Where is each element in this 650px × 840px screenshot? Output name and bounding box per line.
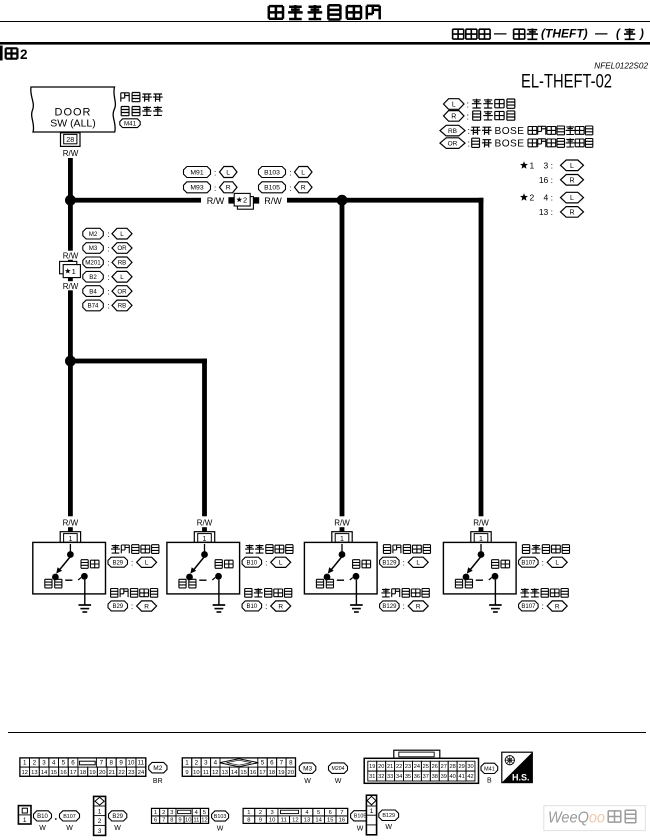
svg-text:26: 26 bbox=[432, 764, 438, 770]
connector ref B4:OR bbox=[83, 286, 132, 297]
svg-text:36: 36 bbox=[414, 774, 420, 780]
connector ref B107:R bbox=[519, 601, 568, 611]
left edge mark bbox=[0, 46, 3, 61]
svg-text:RB: RB bbox=[118, 260, 127, 267]
svg-text::: : bbox=[131, 558, 133, 567]
svg-text:13: 13 bbox=[31, 770, 37, 776]
door switch 3 box bbox=[304, 542, 377, 594]
svg-text:M2: M2 bbox=[153, 765, 162, 772]
wire label R/W (switch 2) bbox=[197, 519, 213, 528]
svg-text:20: 20 bbox=[378, 764, 384, 770]
svg-text:R/W: R/W bbox=[264, 196, 282, 206]
wire label R/W (switch 3) bbox=[334, 519, 350, 528]
svg-text:14: 14 bbox=[315, 818, 322, 824]
svg-text:13: 13 bbox=[304, 818, 310, 824]
inline connector *1 bbox=[60, 261, 81, 277]
svg-text:EL-THEFT-02: EL-THEFT-02 bbox=[521, 72, 612, 93]
svg-text:W: W bbox=[114, 825, 121, 832]
svg-text::: : bbox=[108, 302, 110, 311]
svg-text:B105: B105 bbox=[264, 185, 280, 192]
svg-text:5: 5 bbox=[261, 760, 265, 767]
ground (switch 3) bbox=[350, 580, 363, 612]
footnote *1 pin16 R bbox=[539, 175, 584, 186]
switch 4 closed contact 关闭 bbox=[455, 574, 472, 588]
connector ref B107:L bbox=[519, 557, 568, 567]
pin 1 (switch 4) bbox=[471, 532, 491, 544]
switch 1 closed contact 关闭 bbox=[45, 574, 62, 588]
svg-text:R/W: R/W bbox=[207, 196, 225, 206]
svg-text:M201: M201 bbox=[85, 260, 101, 267]
svg-text:5: 5 bbox=[317, 810, 320, 816]
svg-text:R: R bbox=[144, 603, 149, 610]
connector ref M3:OR bbox=[83, 243, 132, 254]
svg-text:2: 2 bbox=[98, 818, 102, 825]
switch 3 blade w/ arrow bbox=[328, 557, 342, 574]
pin 1 (switch 3) bbox=[332, 532, 352, 544]
connector refs M91:L B103:L bbox=[184, 167, 313, 178]
svg-text::: : bbox=[290, 169, 292, 178]
connector ref B103 W bbox=[212, 811, 229, 833]
svg-text:31: 31 bbox=[369, 774, 375, 780]
svg-text:19: 19 bbox=[89, 770, 95, 776]
svg-text:B74: B74 bbox=[87, 303, 99, 310]
svg-text:R/W: R/W bbox=[63, 519, 79, 528]
switch 2 blade w/ arrow bbox=[190, 557, 204, 574]
svg-text::: : bbox=[467, 100, 470, 110]
doc number NFEL0122S02 bbox=[594, 62, 648, 71]
connector refs M3 W / M204 W bbox=[299, 763, 347, 785]
svg-text:9: 9 bbox=[259, 818, 262, 824]
svg-text:10: 10 bbox=[185, 818, 191, 824]
svg-text:5: 5 bbox=[203, 810, 206, 816]
svg-text::: : bbox=[214, 184, 216, 193]
svg-text:16 :: 16 : bbox=[539, 175, 553, 185]
svg-text:7: 7 bbox=[340, 810, 343, 816]
svg-text:R: R bbox=[569, 209, 574, 216]
svg-text::: : bbox=[108, 230, 110, 239]
svg-text:4 :: 4 : bbox=[544, 193, 553, 203]
svg-text:L: L bbox=[120, 274, 124, 281]
svg-text:R: R bbox=[226, 185, 231, 192]
svg-text:21: 21 bbox=[387, 764, 393, 770]
label 左后门开关 bbox=[245, 545, 293, 554]
switch 2 closed contact 关闭 bbox=[179, 574, 196, 588]
svg-text::: : bbox=[468, 139, 471, 149]
svg-text:M41: M41 bbox=[484, 766, 495, 772]
svg-text::: : bbox=[108, 273, 110, 282]
door switch 2 box bbox=[167, 542, 240, 594]
svg-text:M41: M41 bbox=[124, 120, 137, 127]
svg-text:3: 3 bbox=[170, 810, 173, 816]
svg-text:15: 15 bbox=[327, 818, 333, 824]
connector view B29 4-pin strip bbox=[94, 796, 106, 835]
node junction at branch3 bbox=[337, 195, 348, 206]
svg-text:M93: M93 bbox=[190, 185, 203, 192]
pin 28 bbox=[61, 133, 81, 147]
svg-text:1: 1 bbox=[72, 267, 76, 276]
svg-text:34: 34 bbox=[396, 774, 402, 780]
wire label R/W (pin28) bbox=[63, 149, 79, 158]
svg-text:12: 12 bbox=[21, 770, 27, 776]
svg-text:1: 1 bbox=[23, 760, 27, 767]
svg-text:2: 2 bbox=[243, 196, 247, 205]
svg-text:W: W bbox=[66, 825, 73, 832]
svg-text:B129: B129 bbox=[382, 604, 397, 610]
svg-text:R: R bbox=[278, 603, 283, 610]
watermark WeeQoo bbox=[544, 806, 646, 831]
svg-text:B107: B107 bbox=[63, 814, 76, 820]
svg-text::: : bbox=[108, 259, 110, 268]
svg-text:L: L bbox=[555, 560, 559, 567]
svg-text:1: 1 bbox=[154, 810, 157, 816]
inline connector *2 bbox=[228, 193, 259, 209]
svg-text:W: W bbox=[357, 826, 364, 833]
connector ref M201:RB bbox=[83, 257, 132, 268]
svg-text:L: L bbox=[570, 195, 574, 202]
connector ref B105 W bbox=[351, 811, 370, 833]
svg-text:B4: B4 bbox=[89, 288, 97, 295]
svg-text:R/W: R/W bbox=[63, 251, 79, 260]
svg-text:27: 27 bbox=[441, 764, 447, 770]
svg-text:16: 16 bbox=[60, 770, 66, 776]
svg-text:W: W bbox=[385, 824, 392, 831]
node junction lower branch bbox=[65, 356, 76, 367]
svg-text:W: W bbox=[39, 825, 46, 832]
svg-text:8: 8 bbox=[170, 818, 173, 824]
svg-text::: : bbox=[265, 602, 267, 611]
ground (switch 4) bbox=[489, 580, 502, 612]
header subtitle 电路图-防盗(THEFT)-(续) bbox=[453, 27, 644, 41]
wire label R/W (switch 4) bbox=[473, 519, 489, 528]
wire vertical main from pin28 down to switch1 bbox=[68, 158, 73, 532]
label 右前门开关 bbox=[383, 545, 430, 554]
connector ref B29 W bbox=[109, 811, 127, 832]
svg-text:OR: OR bbox=[117, 245, 127, 252]
switch 1 contact from pin bbox=[67, 544, 74, 558]
svg-text:L: L bbox=[120, 231, 124, 238]
connector ref B2:L bbox=[83, 271, 132, 282]
svg-text:—: — bbox=[493, 27, 507, 41]
footnote *2 pin13 R bbox=[539, 207, 584, 218]
svg-text:L: L bbox=[145, 560, 149, 567]
svg-text:11: 11 bbox=[281, 818, 287, 824]
svg-text:6: 6 bbox=[270, 760, 274, 767]
svg-text:RB: RB bbox=[118, 303, 127, 310]
svg-text:9: 9 bbox=[185, 770, 188, 776]
svg-text:12: 12 bbox=[292, 818, 298, 824]
svg-text:L: L bbox=[279, 560, 283, 567]
H.S. logo bbox=[502, 752, 533, 782]
wire vertical branch3 bbox=[340, 200, 345, 532]
wire horizontal lower branch bbox=[68, 359, 207, 364]
svg-text:RB: RB bbox=[448, 128, 457, 135]
svg-text:B10: B10 bbox=[37, 814, 48, 820]
svg-text:(THEFT): (THEFT) bbox=[541, 27, 588, 41]
svg-text:M2: M2 bbox=[89, 231, 98, 238]
svg-text:18: 18 bbox=[80, 770, 86, 776]
svg-text:35: 35 bbox=[405, 774, 411, 780]
legend OR = 不带BOSE系统的右舵车型 bbox=[440, 138, 593, 150]
svg-text:SW (ALL): SW (ALL) bbox=[50, 118, 96, 130]
svg-text:21: 21 bbox=[109, 770, 115, 776]
svg-text:16: 16 bbox=[339, 818, 345, 824]
svg-text:17: 17 bbox=[70, 770, 76, 776]
connector ref M2:L bbox=[83, 228, 132, 239]
unit label 智能进入控制单元 bbox=[121, 93, 163, 116]
svg-text:29: 29 bbox=[458, 764, 464, 770]
svg-text:R/W: R/W bbox=[63, 149, 79, 158]
svg-text:40: 40 bbox=[449, 774, 455, 780]
connector ref M2 BR bbox=[149, 762, 167, 785]
svg-text:R/W: R/W bbox=[63, 282, 79, 291]
svg-text:41: 41 bbox=[458, 774, 464, 780]
switch 3 open contact 打开 bbox=[337, 560, 371, 581]
svg-text:11: 11 bbox=[193, 818, 199, 824]
wire label R/W (left of *2) bbox=[207, 196, 225, 206]
svg-text:B103: B103 bbox=[264, 169, 280, 176]
svg-text:BOSE: BOSE bbox=[495, 126, 525, 137]
svg-text:14: 14 bbox=[231, 770, 238, 776]
svg-text:L: L bbox=[570, 163, 574, 170]
svg-text::: : bbox=[290, 184, 292, 193]
svg-text:2: 2 bbox=[20, 47, 28, 62]
connector view M3/M204 20-pin bbox=[182, 758, 295, 776]
connector refs B10 W / B107 W bbox=[34, 811, 80, 832]
svg-text::: : bbox=[468, 126, 471, 136]
svg-text:17: 17 bbox=[259, 770, 265, 776]
svg-text:23: 23 bbox=[405, 764, 411, 770]
door switch 4 box bbox=[443, 542, 516, 594]
svg-text:2: 2 bbox=[259, 810, 262, 816]
svg-text:33: 33 bbox=[387, 774, 393, 780]
svg-text:M3: M3 bbox=[303, 766, 312, 773]
svg-text:1: 1 bbox=[370, 808, 374, 815]
svg-text:20: 20 bbox=[99, 770, 105, 776]
svg-text:R: R bbox=[301, 185, 306, 192]
svg-text:M3: M3 bbox=[89, 245, 98, 252]
svg-text:1: 1 bbox=[247, 810, 250, 816]
svg-text:9: 9 bbox=[178, 818, 181, 824]
header thick rule bbox=[0, 42, 650, 45]
svg-text:13: 13 bbox=[221, 770, 227, 776]
svg-text:B129: B129 bbox=[382, 560, 397, 566]
connector view B10/B107 1-pin bbox=[18, 806, 31, 824]
svg-text:7: 7 bbox=[162, 818, 165, 824]
svg-text:7: 7 bbox=[100, 760, 104, 767]
svg-text:5: 5 bbox=[62, 760, 66, 767]
svg-text:—: — bbox=[594, 27, 608, 41]
svg-text:B129: B129 bbox=[382, 813, 395, 819]
footnote *1 pin3 L bbox=[520, 160, 584, 171]
svg-text:3: 3 bbox=[42, 760, 46, 767]
svg-text:L: L bbox=[452, 102, 456, 109]
connector view B105 16-pin bbox=[243, 808, 348, 823]
svg-text:7: 7 bbox=[280, 760, 284, 767]
svg-text::: : bbox=[467, 112, 470, 122]
svg-text:18: 18 bbox=[269, 770, 275, 776]
svg-text:WeeQoo: WeeQoo bbox=[548, 810, 605, 827]
svg-text:W: W bbox=[304, 778, 311, 785]
legend L = 左舵车型 bbox=[444, 99, 515, 110]
svg-text::: : bbox=[542, 558, 544, 567]
ground (switch 1) bbox=[79, 580, 92, 612]
svg-text:25: 25 bbox=[423, 764, 429, 770]
svg-text::: : bbox=[403, 602, 405, 611]
figure label 图2 bbox=[6, 47, 28, 62]
switch 3 contact from pin bbox=[339, 544, 346, 558]
svg-text:R: R bbox=[451, 113, 456, 120]
svg-text:L: L bbox=[301, 169, 305, 176]
wire label R/W (right of *2) bbox=[264, 196, 282, 206]
svg-text:L: L bbox=[226, 169, 230, 176]
connector ref B129 W bbox=[379, 810, 399, 831]
wire label R/W (switch 1) bbox=[63, 519, 79, 528]
header thin rule bbox=[0, 21, 650, 23]
page title 防盗报警系统 bbox=[269, 5, 380, 20]
svg-text:28: 28 bbox=[449, 764, 455, 770]
svg-text:B2: B2 bbox=[89, 274, 97, 281]
svg-text:11: 11 bbox=[138, 760, 145, 767]
sheet code EL-THEFT-02 bbox=[521, 72, 612, 93]
svg-text:R/W: R/W bbox=[334, 519, 350, 528]
label 左后门开关 bbox=[520, 588, 568, 597]
ground (switch 2) bbox=[213, 580, 226, 612]
svg-text:4: 4 bbox=[52, 760, 56, 767]
svg-text:14: 14 bbox=[41, 770, 48, 776]
svg-text::: : bbox=[214, 169, 216, 178]
svg-text:B103: B103 bbox=[214, 814, 227, 820]
node junction at main/upper wire bbox=[65, 195, 76, 206]
svg-text:32: 32 bbox=[378, 774, 384, 780]
svg-text:24: 24 bbox=[138, 770, 145, 776]
svg-text:16: 16 bbox=[250, 770, 256, 776]
unit DOOR SW (ALL) box with torn edges bbox=[31, 87, 116, 132]
svg-text:22: 22 bbox=[396, 764, 402, 770]
connector ref B29:L bbox=[108, 557, 157, 567]
connector ref B10:L bbox=[242, 557, 291, 567]
footer rule bbox=[8, 732, 646, 734]
svg-text:13 :: 13 : bbox=[539, 207, 553, 217]
svg-text:B29: B29 bbox=[112, 814, 123, 820]
connector view B129 4-pin strip bbox=[366, 795, 376, 835]
svg-text:W: W bbox=[335, 778, 342, 785]
svg-text:10: 10 bbox=[193, 770, 199, 776]
svg-text:37: 37 bbox=[423, 774, 429, 780]
switch 3 closed contact 关闭 bbox=[316, 574, 333, 588]
legend RB = 带有BOSE系统的右舵车型 bbox=[440, 125, 593, 137]
svg-text:B29: B29 bbox=[112, 604, 123, 610]
pin 1 (switch 1) bbox=[60, 532, 80, 544]
label 左前门开关 bbox=[111, 545, 159, 554]
connector ref B10:R bbox=[242, 601, 291, 611]
svg-text::: : bbox=[403, 558, 405, 567]
connector ref M41 B bbox=[481, 763, 498, 784]
svg-text:39: 39 bbox=[441, 774, 447, 780]
svg-text:BOSE: BOSE bbox=[495, 139, 525, 150]
connector ref M41 (unit) bbox=[120, 119, 140, 128]
svg-text:3: 3 bbox=[204, 760, 208, 767]
svg-text:R: R bbox=[569, 177, 574, 184]
switch 1 open contact 打开 bbox=[65, 560, 99, 581]
svg-text:R: R bbox=[416, 603, 421, 610]
svg-text::: : bbox=[542, 602, 544, 611]
svg-text:6: 6 bbox=[154, 818, 157, 824]
svg-text:L: L bbox=[416, 560, 420, 567]
svg-text:3: 3 bbox=[270, 810, 273, 816]
svg-text:B: B bbox=[487, 778, 492, 785]
svg-text:3: 3 bbox=[98, 828, 102, 835]
svg-text:2: 2 bbox=[162, 810, 165, 816]
svg-text:8: 8 bbox=[289, 760, 293, 767]
svg-text:23: 23 bbox=[128, 770, 134, 776]
svg-text:R/W: R/W bbox=[197, 519, 213, 528]
svg-text:3 :: 3 : bbox=[544, 161, 553, 171]
svg-text:8: 8 bbox=[247, 818, 250, 824]
svg-text:42: 42 bbox=[467, 774, 473, 780]
label 左前门开关 bbox=[381, 588, 429, 597]
svg-text:W: W bbox=[217, 826, 224, 833]
svg-text:B107: B107 bbox=[521, 560, 536, 566]
svg-text:B10: B10 bbox=[246, 560, 257, 566]
svg-text:8: 8 bbox=[109, 760, 113, 767]
svg-text::: : bbox=[265, 558, 267, 567]
svg-text:B10: B10 bbox=[246, 604, 257, 610]
svg-text:11: 11 bbox=[203, 770, 209, 776]
svg-text:M204: M204 bbox=[332, 766, 345, 772]
svg-text:22: 22 bbox=[118, 770, 124, 776]
svg-text:B29: B29 bbox=[112, 560, 123, 566]
svg-text:9: 9 bbox=[119, 760, 123, 767]
label 右后门开关 bbox=[522, 545, 569, 554]
legend R = 右舵车型 bbox=[444, 111, 515, 122]
svg-text::: : bbox=[108, 244, 110, 253]
switch 4 blade w/ arrow bbox=[467, 557, 481, 574]
connector ref B129:L bbox=[380, 557, 429, 567]
switch 2 contact from pin bbox=[201, 544, 208, 558]
footnote *2 pin4 L bbox=[520, 192, 584, 203]
label 右后门开关 bbox=[245, 588, 292, 597]
pin 1 (switch 2) bbox=[194, 532, 214, 544]
wire horizontal upper left segment bbox=[68, 198, 201, 203]
switch 2 open contact 打开 bbox=[199, 560, 233, 581]
svg-text:B105: B105 bbox=[354, 814, 367, 820]
svg-text::: : bbox=[108, 287, 110, 296]
svg-text:2: 2 bbox=[195, 760, 199, 767]
connector refs M93:R B105:R bbox=[184, 182, 313, 193]
svg-text:1: 1 bbox=[23, 817, 27, 824]
label 右前门开关 bbox=[111, 589, 158, 598]
svg-text:B107: B107 bbox=[521, 604, 536, 610]
svg-text:OR: OR bbox=[448, 140, 458, 147]
svg-text:10: 10 bbox=[128, 760, 135, 767]
wire vertical branch2 bbox=[202, 359, 207, 533]
svg-text:19: 19 bbox=[278, 770, 284, 776]
connector view M2 24-pin bbox=[20, 758, 146, 776]
svg-text:10: 10 bbox=[269, 818, 275, 824]
switch 4 contact from pin bbox=[478, 544, 485, 558]
svg-text:OR: OR bbox=[117, 288, 127, 295]
svg-text:M91: M91 bbox=[190, 169, 203, 176]
connector view M41 24-pin bbox=[364, 750, 478, 783]
svg-text:H.S.: H.S. bbox=[512, 773, 530, 783]
svg-text:1: 1 bbox=[98, 808, 102, 815]
svg-text:15: 15 bbox=[51, 770, 57, 776]
wire label R/W (below *1) bbox=[63, 282, 79, 291]
connector ref B29:R bbox=[108, 601, 157, 611]
svg-text:12: 12 bbox=[201, 818, 207, 824]
svg-text::: : bbox=[131, 602, 133, 611]
svg-text:12: 12 bbox=[212, 770, 218, 776]
